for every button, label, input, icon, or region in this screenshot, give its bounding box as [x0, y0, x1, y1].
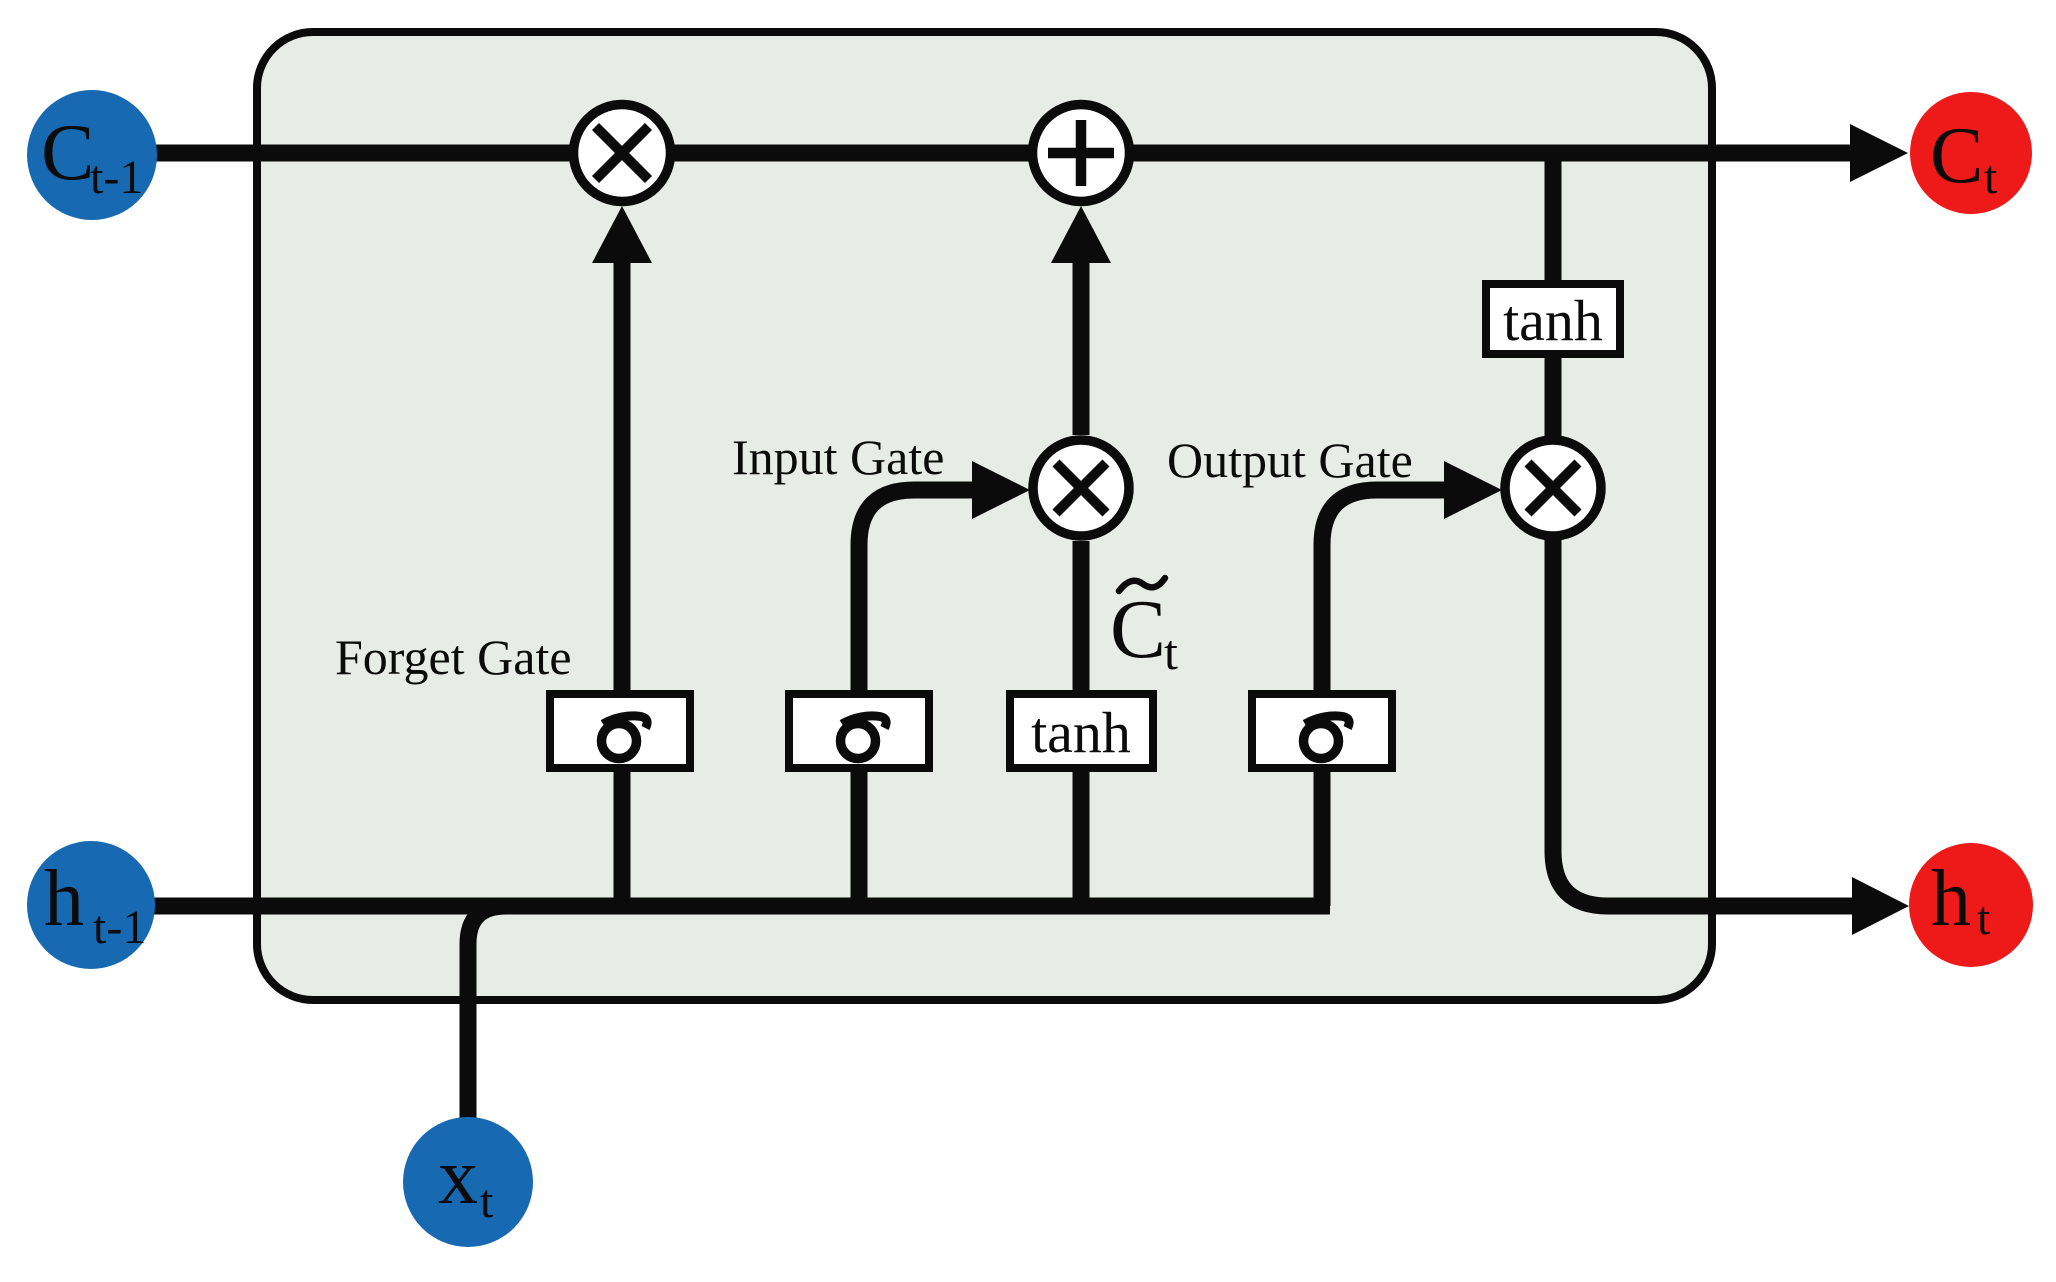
- wire output gate curve: [1322, 490, 1446, 906]
- svg-text:t-1: t-1: [90, 151, 143, 204]
- node C_t-1: [27, 90, 157, 220]
- arrow into output multiply: [1444, 461, 1502, 519]
- sigma box forget gate: [550, 694, 690, 768]
- LSTM cell body: [257, 32, 1712, 1000]
- svg-text:Output Gate: Output Gate: [1167, 432, 1413, 488]
- svg-text:C: C: [1930, 112, 1983, 200]
- svg-text:C: C: [1110, 583, 1166, 676]
- wire cell-state branch to tanh: [1545, 153, 1562, 280]
- svg-text:h: h: [44, 855, 84, 943]
- svg-text:h: h: [1931, 855, 1971, 943]
- svg-text:t: t: [1164, 624, 1178, 680]
- multiply op forget gate: [574, 105, 671, 202]
- svg-text:tanh: tanh: [1031, 700, 1131, 765]
- sigma box output gate: [1252, 694, 1392, 768]
- wire cell-state top line: [95, 145, 1856, 162]
- node h_t: [1909, 843, 2033, 967]
- label candidate C tilde t: [1110, 578, 1178, 680]
- multiply op input gate: [1033, 440, 1129, 536]
- svg-text:C: C: [41, 109, 94, 197]
- node h_t-1: [27, 841, 155, 969]
- wire x_t input curve: [468, 906, 506, 1120]
- node C_t: [1910, 92, 2032, 214]
- arrow into input multiply: [972, 461, 1030, 519]
- svg-text:Input Gate: Input Gate: [732, 429, 944, 485]
- tanh box candidate: [1010, 694, 1153, 768]
- svg-text:x: x: [438, 1133, 478, 1221]
- wire candidate vertical: [1073, 541, 1090, 906]
- wire forget gate vertical: [614, 256, 631, 906]
- svg-text:t: t: [480, 1175, 494, 1228]
- wire input gate curve: [859, 490, 974, 906]
- wire hidden-state h line: [95, 898, 1330, 915]
- svg-text:tanh: tanh: [1503, 288, 1603, 353]
- node x_t: [403, 1117, 533, 1247]
- multiply op output gate: [1505, 440, 1601, 536]
- add op cell state: [1033, 105, 1130, 202]
- svg-text:Forget Gate: Forget Gate: [335, 629, 572, 685]
- svg-text:t: t: [1984, 151, 1998, 204]
- tanh box cell output: [1486, 284, 1620, 354]
- svg-text:t: t: [1977, 892, 1991, 945]
- arrow into add op: [1051, 206, 1111, 263]
- wire candidate to add: [1073, 256, 1090, 435]
- arrow into C_t: [1850, 124, 1908, 182]
- arrow into h_t: [1852, 877, 1909, 935]
- svg-text:t-1: t-1: [93, 901, 146, 954]
- sigma box input gate: [789, 694, 929, 768]
- wire tanh to output multiply: [1545, 358, 1562, 437]
- arrow into forget multiply: [592, 206, 652, 263]
- wire output multiply down to h line: [1553, 539, 1855, 906]
